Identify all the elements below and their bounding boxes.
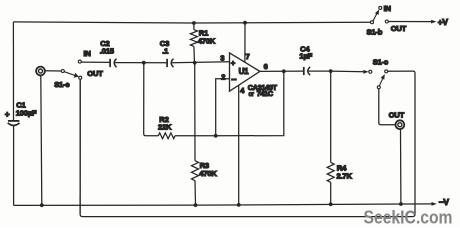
svg-text:+: +: [5, 110, 10, 119]
R3 value label: [199, 161, 217, 178]
wire pin 2 from feedback junction: [216, 79, 230, 136]
output jack J2: [396, 120, 405, 130]
svg-text:470K: 470K: [198, 36, 216, 45]
resistor R4: [327, 71, 334, 204]
switch S1-e OUT contact: [79, 76, 82, 79]
capacitor C2: [110, 59, 116, 67]
wire input jack to S1-e pole: [45, 70, 61, 72]
wire -V bottom rail with arrow: [14, 202, 437, 206]
op-amp U1 designator: [239, 67, 250, 76]
input jack J1: [36, 67, 45, 77]
svg-text:+V: +V: [438, 17, 449, 27]
wire C3 to op-amp pin 3: [172, 62, 230, 63]
svg-text:or: or: [249, 92, 254, 98]
S1-e labels: [54, 49, 103, 89]
node dot feedback/R2/pin2 junction: [214, 134, 218, 138]
svg-text:2.7K: 2.7K: [337, 172, 353, 181]
svg-text:.1: .1: [162, 46, 169, 55]
wire pin 6 output to C4: [260, 70, 304, 72]
svg-text:IN: IN: [384, 4, 391, 13]
svg-text:OUT: OUT: [389, 111, 405, 120]
wire S1-e OUT contact down to bypass rail (crosses -V rail): [79, 79, 81, 214]
wire S1-b OUT to +V arrow: [388, 20, 436, 24]
wire top +V rail from left corner to S1-b pole: [13, 22, 370, 23]
-V label: [439, 197, 450, 207]
wire bypass: S1-c right contact right, down, along bottom, up to S1-e OUT: [80, 71, 415, 217]
svg-text:OUT: OUT: [391, 24, 407, 33]
svg-text:7: 7: [246, 52, 250, 61]
capacitor C1: [8, 121, 20, 126]
+V label: [438, 17, 449, 27]
C1 polarity + sign: [5, 110, 10, 119]
switch S1-c right contact: [385, 70, 388, 73]
svg-text:SeekIC.com: SeekIC.com: [364, 207, 453, 227]
pin 7 number: [246, 52, 250, 61]
wire S1-e IN contact to C2: [81, 61, 110, 63]
svg-text:+: +: [231, 59, 236, 68]
wire pin 7 to top rail: [244, 23, 246, 63]
svg-text:S1-e: S1-e: [54, 80, 69, 89]
capacitor C4: [304, 67, 310, 75]
svg-text:S1-c: S1-c: [373, 58, 388, 67]
switch S1-b arm with arrow toward IN: [373, 9, 379, 21]
svg-text:S1-b: S1-b: [367, 27, 383, 36]
switch S1-c arm with arrow toward right contact: [379, 74, 384, 86]
wire S1-c lower contact to output jack: [379, 89, 396, 125]
wire input jack down to -V rail: [41, 76, 42, 205]
pin 3 number: [220, 54, 224, 63]
resistor R2: [158, 133, 175, 139]
wire left edge vertical (C1 down to -V rail): [13, 125, 15, 205]
C1 value label: [16, 100, 37, 117]
C4 value label: [299, 45, 312, 61]
svg-text:OUT: OUT: [87, 69, 103, 78]
resistor R1: [190, 23, 197, 63]
svg-text:−: −: [231, 75, 236, 85]
wire node A down and right to R2: [144, 63, 159, 136]
op-amp U1 triangle: [230, 53, 260, 91]
node dot top rail at R1: [192, 21, 196, 25]
switch S1-b pole contact: [371, 21, 374, 24]
R4 value label: [337, 164, 353, 181]
switch S1-b OUT contact: [385, 20, 388, 23]
switch S1-e pole contact: [61, 70, 64, 73]
wire left edge vertical (top rail down to C1): [12, 22, 14, 121]
svg-text:6: 6: [264, 62, 268, 71]
wire R2 to feedback node: [175, 135, 216, 137]
svg-text:IN: IN: [84, 49, 91, 58]
output jack OUT label: [389, 111, 405, 120]
wire C2 to C3: [115, 62, 167, 64]
pin 4 number: [240, 86, 245, 95]
node dot jack wire on -V rail: [40, 203, 44, 207]
switch S1-e arm with arrow toward OUT: [64, 72, 79, 78]
node dot at R4: [329, 69, 333, 73]
wire C4 to R4 node and S1-c with arrow: [308, 70, 369, 74]
node dot jack wire on -V rail: [399, 202, 403, 206]
svg-text:741C: 741C: [257, 89, 274, 98]
node dot pin 4 on -V rail: [237, 203, 241, 207]
op-amp + input sign: [231, 59, 236, 68]
C3 value label: [160, 39, 169, 56]
switch S1-b IN contact: [379, 6, 382, 9]
svg-text:.015: .015: [100, 46, 115, 55]
wire feedback from output node down and left: [216, 71, 284, 136]
pin 2 number: [221, 72, 225, 81]
switch S1-c left contact: [369, 70, 372, 73]
R1 value label: [198, 29, 216, 46]
capacitor C3: [167, 59, 173, 67]
svg-text:22K: 22K: [158, 123, 172, 132]
op-amp part number label: [248, 83, 278, 98]
node dot at R1/R3 on signal line: [193, 61, 197, 65]
resistor R3: [192, 63, 199, 205]
svg-text:U1: U1: [239, 67, 250, 76]
S1-b labels: [367, 4, 407, 36]
svg-text:1µF: 1µF: [299, 52, 312, 61]
wire pin 4 down to -V rail: [238, 85, 240, 205]
svg-text:2: 2: [221, 72, 225, 81]
op-amp - input sign: [231, 75, 236, 85]
S1-c label: [373, 58, 388, 67]
svg-text:3: 3: [220, 54, 224, 63]
node dot R4 on -V rail: [329, 202, 333, 206]
watermark SeekIC.com: [364, 207, 453, 228]
C2 value label: [100, 39, 115, 56]
node dot top rail at pin 7: [243, 21, 247, 25]
switch S1-e IN contact: [78, 60, 81, 63]
node dot on output at feedback tap: [282, 69, 286, 73]
node A dot (C2-C3 junction): [142, 61, 146, 65]
R2 value label: [158, 115, 172, 131]
svg-text:470K: 470K: [199, 169, 217, 178]
pin 6 number: [264, 62, 268, 71]
svg-text:100µF: 100µF: [16, 109, 37, 118]
node dot R3 on -V rail: [194, 203, 198, 207]
wire output jack down to -V rail: [400, 130, 402, 205]
switch S1-c lower contact: [377, 86, 380, 89]
